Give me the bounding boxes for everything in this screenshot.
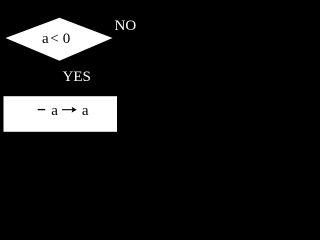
svg-text:<: < (50, 31, 58, 47)
svg-text:a: a (82, 103, 89, 119)
svg-text:a: a (51, 103, 58, 119)
process text: minus sign (38, 109, 46, 111)
decision diamond D1 (6, 18, 113, 61)
svg-text:NO: NO (115, 18, 137, 34)
svg-text:YES: YES (63, 69, 91, 85)
assignment arrow (62, 109, 74, 111)
svg-text:a: a (42, 31, 49, 47)
svg-text:0: 0 (63, 31, 70, 47)
process box P1 (4, 96, 118, 132)
